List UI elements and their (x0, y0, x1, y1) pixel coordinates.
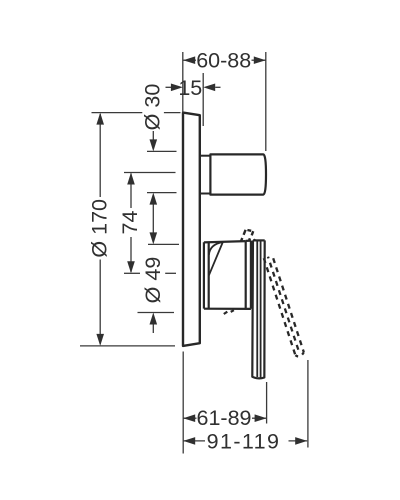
dim 91-119 (183, 437, 307, 445)
small dashes near body bottom (224, 310, 234, 314)
dim 60-88 (183, 56, 266, 64)
cartridge wedge detail (209, 242, 223, 275)
dim Ø170 (96, 113, 104, 346)
svg-text:Ø 49: Ø 49 (141, 257, 165, 304)
Ø49 bottom outside arrow (150, 313, 158, 334)
extension line top left / 60-88 left (182, 52, 184, 113)
cartridge body (204, 241, 251, 309)
lever alternate back end (dashed) (241, 230, 253, 242)
svg-text:91-119: 91-119 (207, 429, 281, 453)
dim Ø30 (outside arrows) (150, 131, 158, 151)
lever alternate position (dashed) (264, 255, 304, 356)
dim 74 (127, 173, 135, 274)
Ø170 bottom extension (80, 345, 175, 347)
svg-text:Ø 30: Ø 30 (141, 84, 165, 131)
extension 91-119 right (307, 360, 309, 448)
svg-text:60-88: 60-88 (196, 49, 251, 73)
svg-text:61-89: 61-89 (197, 406, 252, 430)
extension line 60-88 right (265, 52, 267, 151)
shut-off knob cylinder Ø30 (210, 154, 266, 194)
dim 15 (outside arrows) (166, 84, 221, 92)
wall plate (side view, Ø170 escutcheon) (183, 113, 200, 346)
74 bottom extension (124, 272, 176, 274)
lever handle (252, 239, 264, 378)
svg-text:Ø 170: Ø 170 (87, 199, 111, 258)
valve sleeve Ø49 (204, 242, 209, 308)
74 top extension (124, 172, 176, 174)
Ø49 extensions (138, 244, 180, 312)
extension line 15 right (202, 73, 204, 126)
Ø30/Ø49 shared connector with outward arrows (150, 193, 158, 245)
lever escutcheon bar (246, 241, 251, 309)
Ø170 top extension (92, 112, 181, 114)
extension 61-89 right (266, 382, 268, 424)
Ø30 extensions (147, 151, 177, 192)
svg-text:74: 74 (118, 211, 142, 235)
svg-text:15: 15 (178, 76, 202, 100)
bottom left shared extension (182, 352, 184, 454)
dim 61-89 (183, 414, 266, 422)
shut-off knob neck (201, 156, 211, 194)
